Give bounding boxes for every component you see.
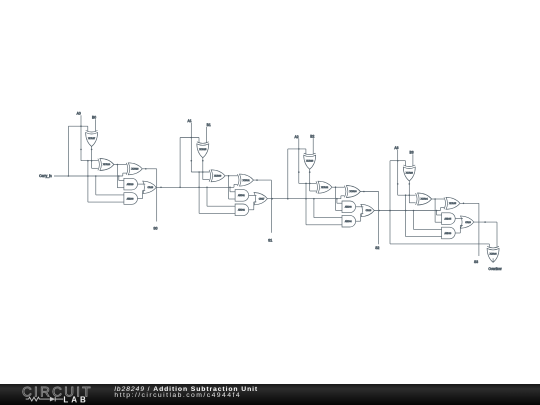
svg-text:XOR32: XOR32 (321, 187, 329, 189)
svg-text:OR19: OR19 (465, 222, 471, 224)
svg-text:Carry_in: Carry_in (39, 174, 52, 178)
svg-text:AND34: AND34 (345, 220, 353, 223)
svg-text:XOR36: XOR36 (490, 254, 498, 256)
svg-text:S3: S3 (474, 260, 478, 264)
svg-text:XOR29: XOR29 (131, 169, 139, 171)
svg-text:AND35: AND35 (444, 217, 452, 220)
svg-text:B2: B2 (310, 134, 314, 138)
svg-text:AND31: AND31 (238, 194, 246, 197)
svg-text:S0: S0 (153, 226, 157, 230)
svg-text:OR16: OR16 (148, 187, 154, 189)
svg-text:B3: B3 (410, 151, 414, 155)
svg-text:Overflow: Overflow (488, 267, 502, 271)
svg-text:XOR30: XOR30 (214, 176, 222, 178)
svg-text:AND36: AND36 (444, 232, 452, 235)
svg-text:XOR31: XOR31 (243, 180, 251, 182)
svg-text:XOR35: XOR35 (449, 203, 457, 205)
svg-text:LAB: LAB (63, 395, 88, 404)
svg-text:XOR28: XOR28 (406, 172, 414, 174)
svg-text:B0: B0 (92, 116, 96, 120)
svg-text:AND32: AND32 (238, 209, 246, 212)
svg-text:A2: A2 (295, 135, 299, 139)
svg-text:S1: S1 (268, 238, 272, 242)
svg-text:XOR33: XOR33 (349, 191, 357, 193)
svg-text:A0: A0 (77, 112, 81, 116)
svg-text:AND30: AND30 (127, 197, 135, 200)
svg-text:A1: A1 (188, 119, 192, 123)
svg-text:OR17: OR17 (259, 198, 265, 200)
svg-text:B1: B1 (207, 123, 211, 127)
svg-text:XOR34: XOR34 (421, 199, 429, 201)
svg-text:A3: A3 (394, 146, 398, 150)
svg-text:AND33: AND33 (345, 206, 353, 209)
svg-text:AND29: AND29 (127, 183, 135, 186)
svg-text:OR18: OR18 (366, 210, 372, 212)
svg-text:XOR25: XOR25 (199, 149, 207, 151)
svg-text:S2: S2 (375, 246, 379, 250)
svg-text:XOR27: XOR27 (88, 138, 96, 140)
svg-text:XOR24: XOR24 (103, 164, 111, 166)
svg-text:XOR26: XOR26 (306, 161, 314, 163)
